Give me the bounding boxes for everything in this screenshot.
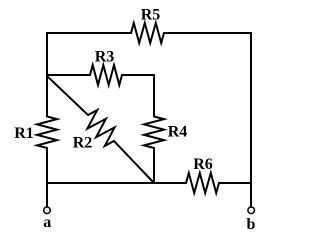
svg-text:b: b <box>247 216 256 233</box>
svg-text:R4: R4 <box>168 124 188 141</box>
svg-text:R6: R6 <box>193 156 213 173</box>
svg-text:R3: R3 <box>95 49 115 66</box>
svg-text:a: a <box>43 214 51 231</box>
svg-text:R1: R1 <box>14 125 34 142</box>
svg-text:R5: R5 <box>141 7 161 24</box>
svg-text:R2: R2 <box>73 135 93 152</box>
